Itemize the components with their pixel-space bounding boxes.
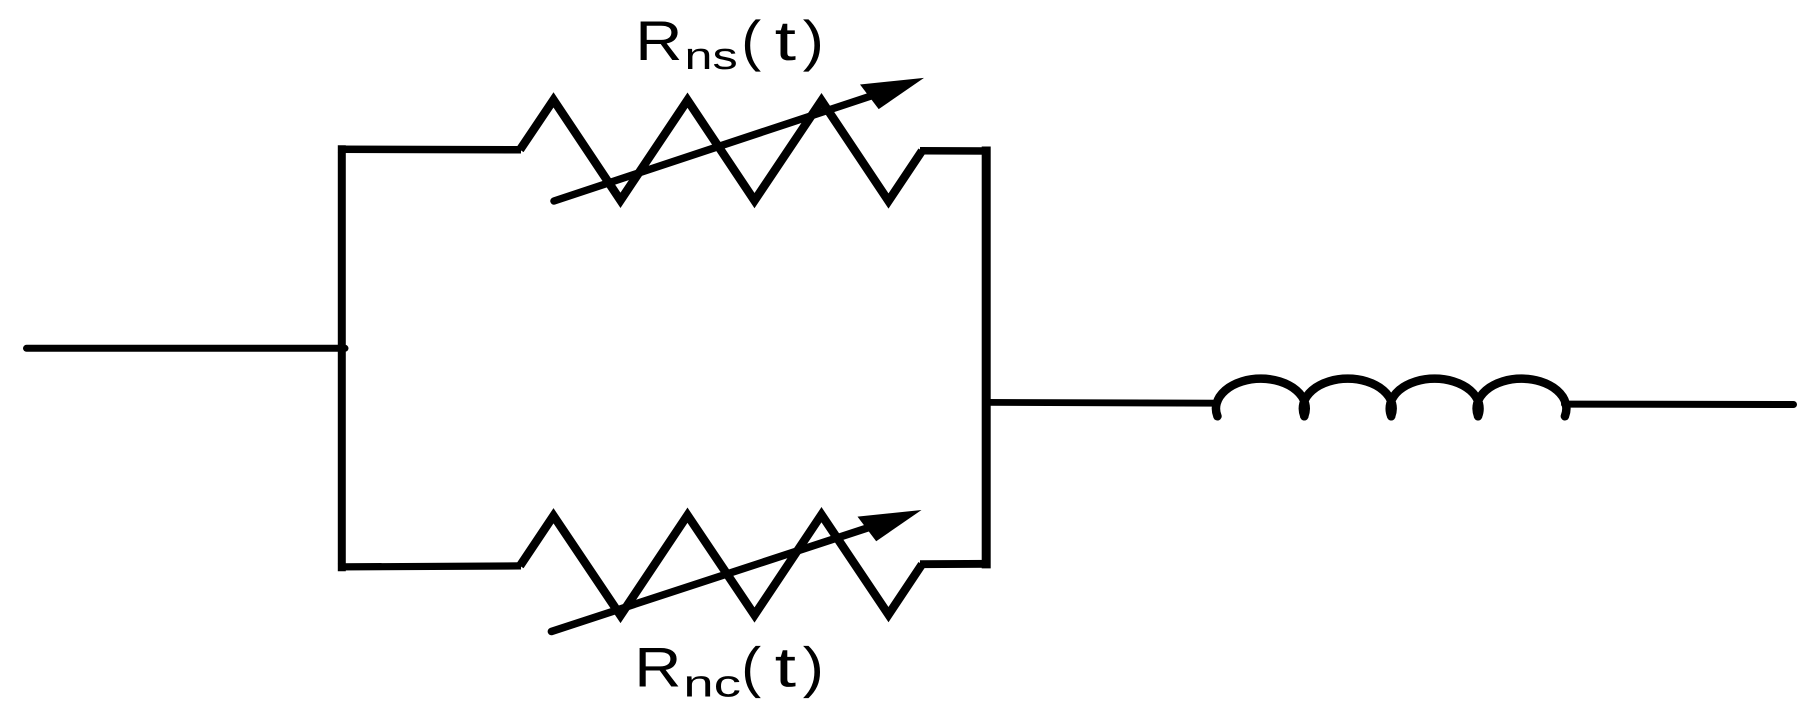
arrow of variable resistor Rns (head) <box>860 78 924 109</box>
label Rnc(t) <box>640 648 679 687</box>
resistor Rnc zigzag (bottom, variable) <box>520 515 922 616</box>
wire right vertical of parallel box <box>982 151 991 564</box>
wire bottom-right horizontal <box>920 560 990 568</box>
wire top-right horizontal <box>920 147 990 155</box>
inductor L (4 humps) <box>1216 379 1566 417</box>
wire middle output <box>986 399 1218 407</box>
arrow of variable resistor Rnc (head) <box>858 510 922 541</box>
wire left vertical of parallel box <box>338 149 346 567</box>
arrow of variable resistor Rnc (shaft) <box>551 525 878 632</box>
arrow of variable resistor Rns (shaft) <box>554 93 880 201</box>
resistor Rns zigzag (top, variable) <box>520 100 922 201</box>
wire input lead left <box>27 345 346 352</box>
wire bottom-left horizontal <box>338 566 521 567</box>
label Rns(t) <box>641 22 680 61</box>
wire top-left horizontal <box>338 145 521 153</box>
wire output right <box>1565 401 1794 408</box>
